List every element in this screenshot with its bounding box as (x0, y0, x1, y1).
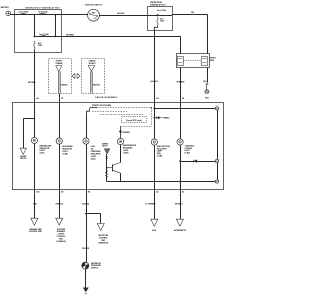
svg-text:A5: A5 (156, 190, 158, 193)
svg-text:(1.4W): (1.4W) (123, 152, 129, 155)
svg-text:RED/BLU: RED/BLU (61, 85, 69, 87)
svg-text:No.6 (7.5A): No.6 (7.5A) (157, 9, 166, 12)
svg-text:(LED): (LED) (91, 158, 96, 160)
svg-text:LT GRN/RED: LT GRN/RED (145, 203, 156, 205)
svg-text:YEL/RED: YEL/RED (82, 248, 90, 250)
svg-text:B9: B9 (61, 191, 63, 193)
svg-text:WHT/RED: WHT/RED (177, 81, 186, 83)
svg-text:BRIGHT-: BRIGHT- (210, 58, 217, 60)
svg-text:YEL: YEL (191, 12, 194, 14)
svg-text:ECM: ECM (152, 230, 156, 232)
svg-text:B10: B10 (36, 191, 39, 193)
svg-text:UNDER-HOOD FUSE/RELAY BOX: UNDER-HOOD FUSE/RELAY BOX (25, 6, 60, 9)
svg-text:WHT/BLU: WHT/BLU (175, 203, 184, 205)
svg-text:GRN/BLU: GRN/BLU (163, 118, 171, 120)
svg-text:RED/BLU: RED/BLU (93, 85, 101, 87)
svg-text:FUSE: FUSE (160, 21, 164, 23)
svg-text:CIRCUIT: CIRCUIT (102, 146, 108, 148)
svg-text:(CANADA): (CANADA) (57, 240, 66, 243)
svg-text:RED/BLU: RED/BLU (56, 204, 64, 206)
svg-text:WHT/RED: WHT/RED (66, 34, 75, 36)
svg-text:BLU: BLU (160, 19, 163, 21)
svg-text:CONTROL UNIT: CONTROL UNIT (29, 231, 43, 233)
svg-text:ALTERNATOR: ALTERNATOR (174, 229, 187, 232)
svg-text:EXCEPT: EXCEPT (56, 61, 62, 63)
svg-text:(1.4W): (1.4W) (157, 155, 163, 158)
svg-text:GAUGE ASSEMBLY: GAUGE ASSEMBLY (95, 96, 118, 99)
svg-text:BLK/YEL: BLK/YEL (117, 13, 124, 15)
svg-text:MODELS: MODELS (89, 63, 97, 65)
svg-text:YEL/RED: YEL/RED (82, 203, 90, 205)
svg-text:CIRCUIT: CIRCUIT (20, 158, 27, 160)
svg-text:GRN/RED: GRN/RED (122, 132, 130, 134)
svg-text:BLU/YEL: BLU/YEL (151, 81, 158, 83)
svg-text:A2: A2 (182, 190, 184, 193)
svg-text:(DRIVER'S): (DRIVER'S) (98, 242, 108, 244)
svg-text:WHT/BLK: WHT/BLK (28, 82, 37, 84)
svg-text:(LED): (LED) (40, 153, 45, 155)
svg-text:(1.4W): (1.4W) (185, 152, 191, 155)
svg-text:A8: A8 (182, 97, 184, 100)
svg-text:B6: B6 (88, 191, 90, 193)
svg-text:SWITCH: SWITCH (91, 268, 99, 270)
svg-text:D5: D5 (61, 98, 63, 100)
svg-text:BATTERY: BATTERY (1, 6, 10, 9)
svg-text:IGNITION SWITCH: IGNITION SWITCH (85, 4, 103, 6)
svg-text:IG1: IG1 (94, 18, 97, 20)
svg-text:(1.4W): (1.4W) (62, 152, 68, 155)
svg-text:A4: A4 (36, 97, 38, 100)
svg-text:FUSE/RELAY BOX: FUSE/RELAY BOX (150, 3, 166, 6)
svg-text:A6: A6 (156, 97, 158, 100)
svg-text:DIMMING: DIMMING (102, 144, 109, 146)
